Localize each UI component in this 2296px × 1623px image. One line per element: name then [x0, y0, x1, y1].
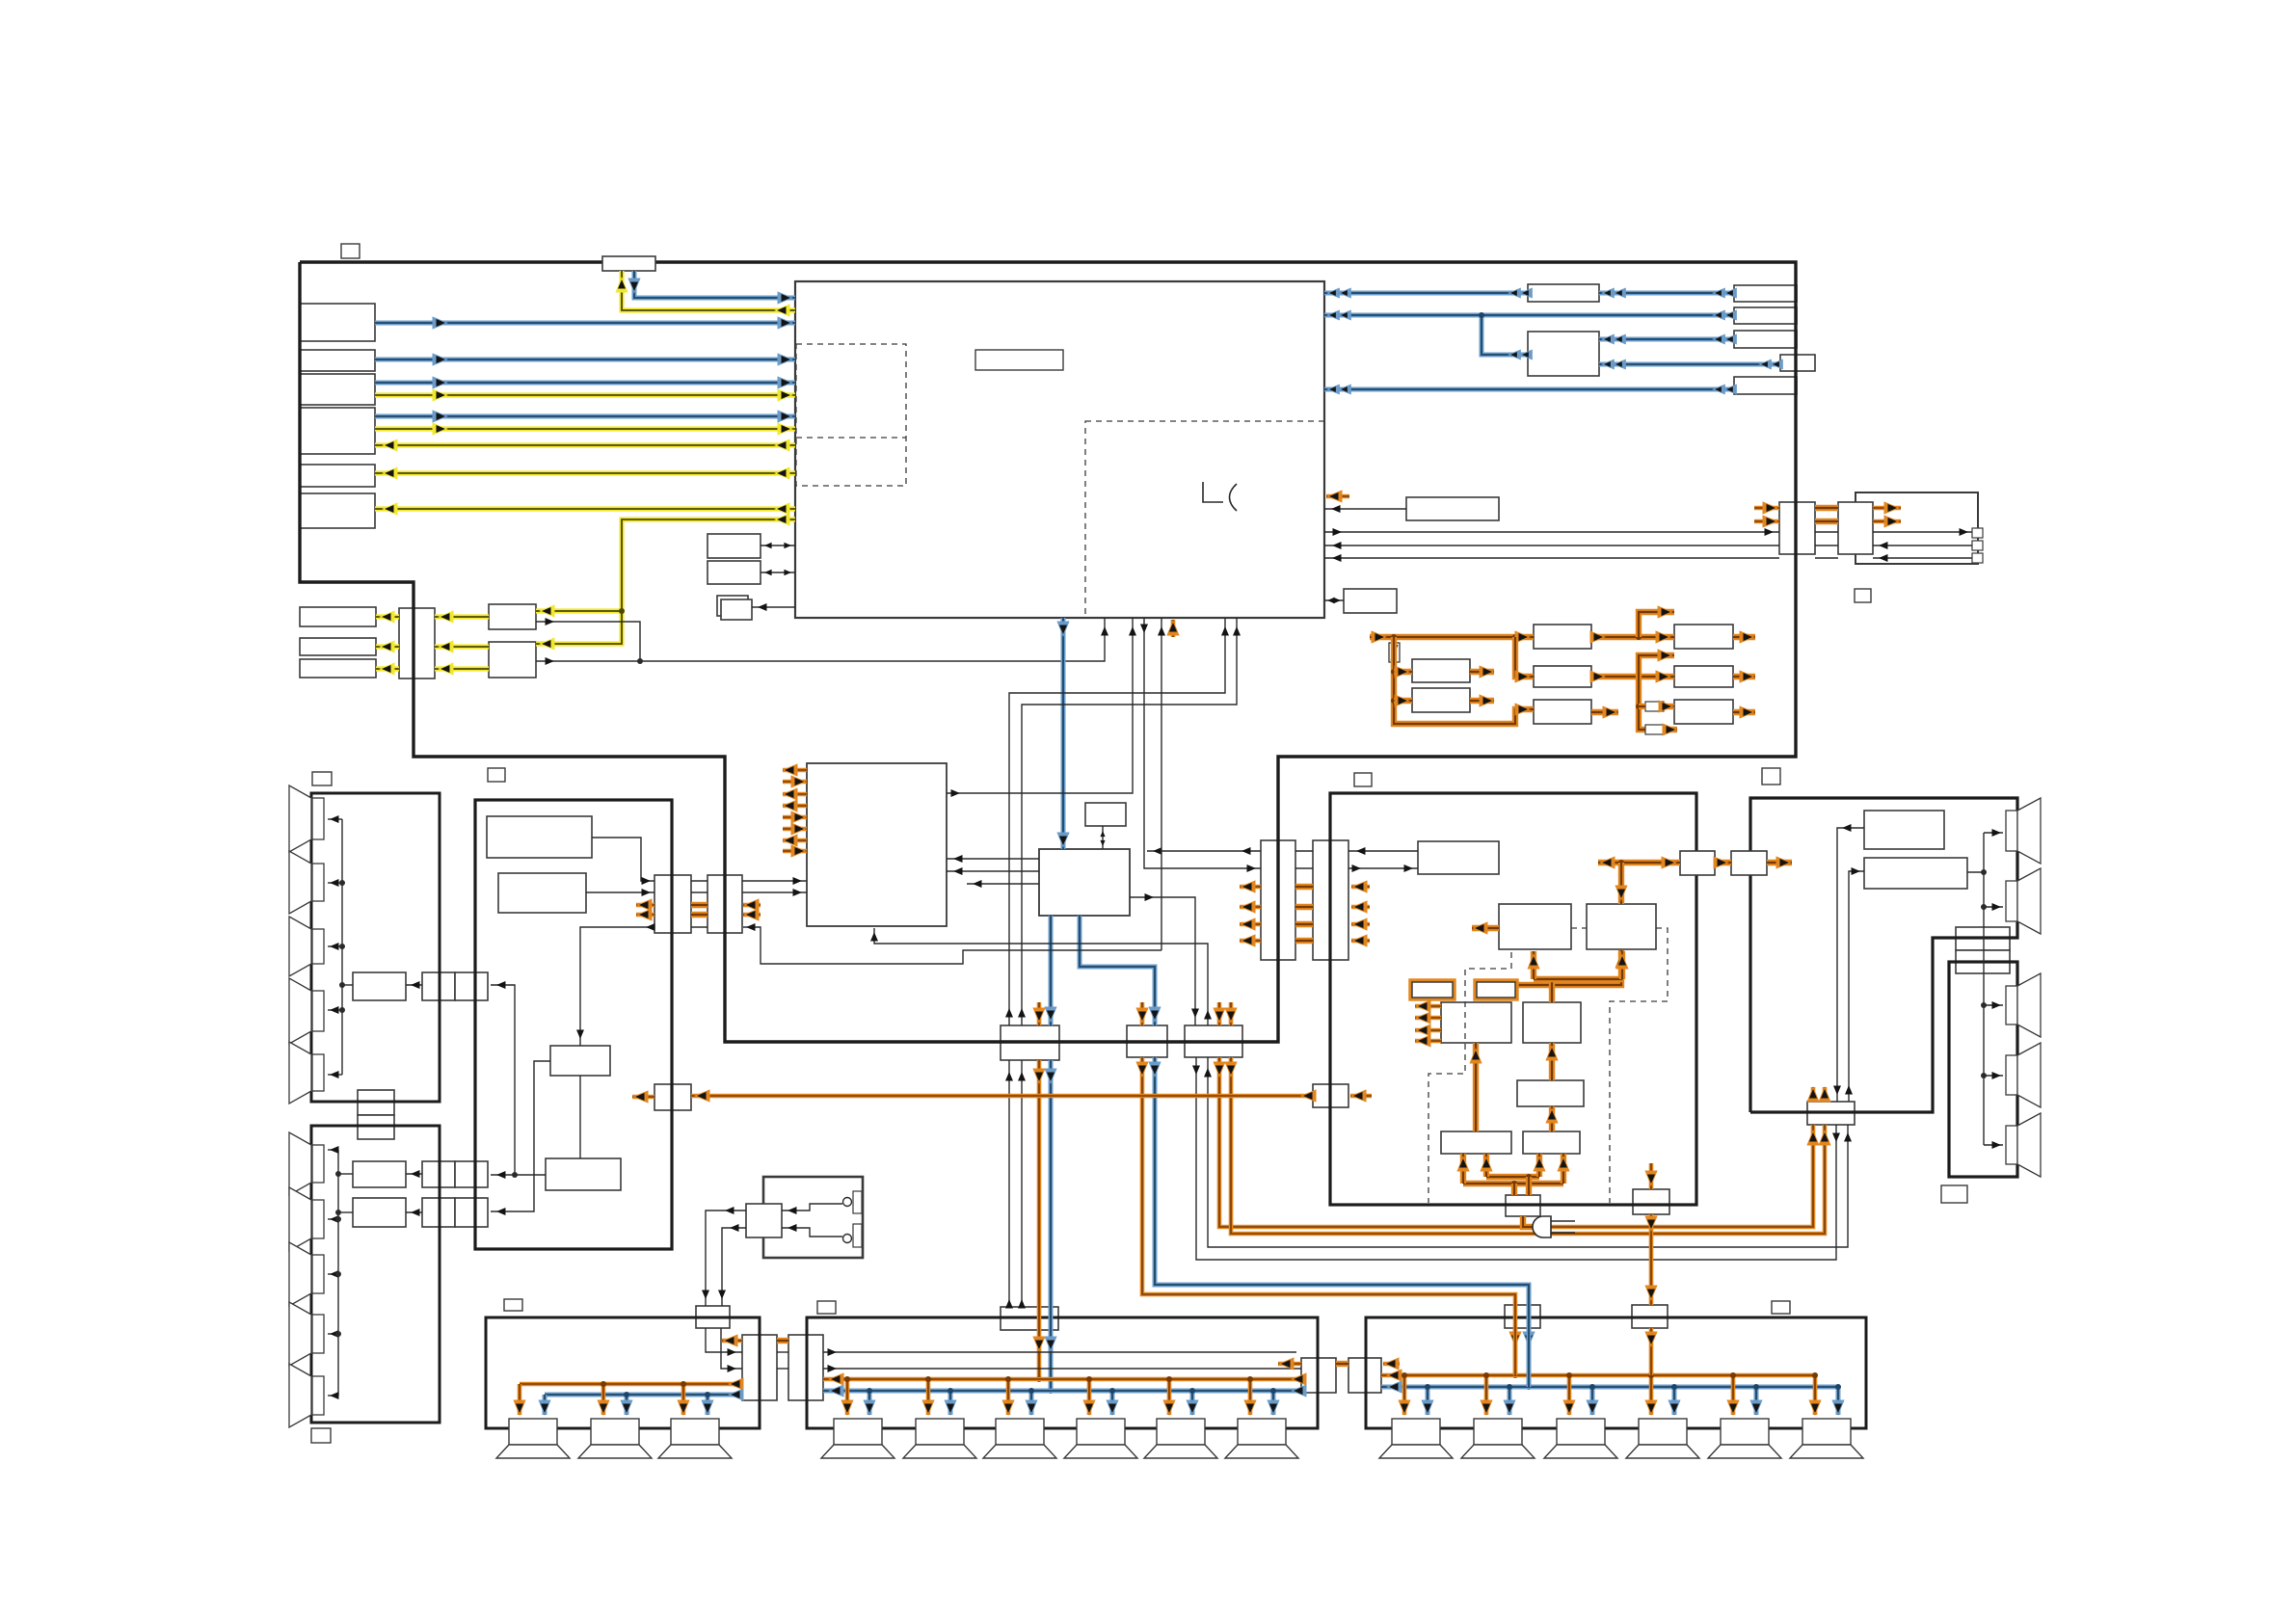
orange T2 out — [1733, 674, 1755, 679]
ac inlet outer box — [763, 1177, 863, 1258]
pair box BR — [788, 1335, 823, 1400]
orange rail 1 TA stub — [1240, 885, 1261, 890]
label square right speaker — [1941, 1185, 1967, 1203]
wire branch to RV pair — [491, 985, 515, 1175]
dsp box U200 — [1039, 849, 1130, 916]
box L1m — [1528, 284, 1599, 302]
label square center speaker — [504, 1299, 522, 1311]
wire U100 down to TA — [1144, 618, 1261, 868]
psu bottom bus outer — [1463, 1181, 1563, 1186]
orange BL BR link — [777, 1338, 788, 1344]
wire tape-in blue 335 — [375, 321, 795, 326]
orange CN1 stub b — [636, 913, 654, 918]
left lower terminal 2 — [312, 1200, 324, 1238]
wire yellow branch to D1 — [536, 608, 622, 613]
wire V2 to CN1 — [586, 891, 654, 893]
psu transformer PB — [1587, 904, 1656, 949]
psu transformer orange tee — [1598, 860, 1680, 865]
fuse lower stub — [1645, 725, 1664, 734]
orange stub rel3 b — [1229, 1002, 1234, 1025]
center blue drop x565 — [543, 1395, 547, 1415]
right terminal 3 — [2006, 986, 2017, 1024]
right horn 3 — [2017, 973, 2041, 1037]
net wire y577 — [1873, 557, 1972, 559]
wire D2 to mux a — [435, 644, 489, 649]
orange stub rel2 — [1140, 1002, 1145, 1025]
orange CN2 stub b — [743, 913, 761, 918]
codec stub 5 — [783, 815, 807, 820]
blue bus w5 y404 — [1324, 387, 1734, 392]
label square dsp section — [488, 768, 505, 782]
left lower terminal 5 — [312, 1376, 324, 1415]
surround orange drop x1883 — [1813, 1375, 1818, 1415]
orange stub into U100 y515 — [1326, 494, 1349, 499]
wire CN link 962 — [691, 926, 707, 928]
orange rail 3 link — [1295, 921, 1313, 927]
surround blue drop x1481 — [1426, 1387, 1430, 1415]
orange CN link b — [691, 912, 707, 918]
psu net mid box M1 — [1534, 625, 1591, 649]
right horn 4 — [2017, 1043, 2041, 1107]
wire U100 vert 1205 — [1161, 618, 1162, 950]
left upper terminal 3 — [312, 929, 324, 964]
ac inlet box Bac — [1506, 1195, 1540, 1216]
wire double box to U100 — [752, 606, 795, 608]
orange BL stub — [722, 1339, 742, 1344]
orange M2 to T2 — [1591, 674, 1674, 679]
buffer box D2 — [489, 642, 536, 678]
codec stub 6 — [783, 827, 807, 832]
amp box U2 — [1864, 858, 1967, 889]
wire out yellow 491 — [375, 470, 795, 475]
standby stub right — [1350, 1094, 1372, 1099]
wire CN2 out right b — [742, 891, 807, 893]
left upper horn 1 — [289, 785, 311, 852]
orange C1 C2 link b — [1815, 519, 1838, 524]
psu net mid box M3 — [1534, 700, 1591, 724]
orange CN1 stub a — [636, 903, 654, 908]
net outer terminal box — [1855, 492, 1978, 564]
front orange drop x1046 — [1006, 1379, 1011, 1415]
left lower terminal 3 — [312, 1255, 324, 1293]
wire TB TA link y883 — [1295, 850, 1313, 852]
center orange bus — [520, 1382, 742, 1387]
net wire y564 — [1873, 545, 1972, 546]
center speaker x553 — [509, 1419, 557, 1445]
front speaker x890 — [834, 1419, 882, 1445]
wire RV to feed — [342, 984, 353, 986]
wire U2 to speaker feed — [1967, 871, 1984, 873]
center blue drop x650 — [625, 1395, 629, 1415]
net connector C2 — [1838, 502, 1873, 554]
black pair to Cf a — [1008, 1060, 1010, 1307]
wire out yellow 462 — [375, 442, 795, 447]
front blue drop x1070 — [1029, 1391, 1034, 1415]
wire W2 to RS1 pair — [491, 1174, 546, 1176]
wire P0 to TB y883 — [1348, 850, 1418, 852]
right terminal 4 — [2006, 1055, 2017, 1095]
orange M1 to T1 — [1591, 634, 1674, 640]
surround blue drop x1822 — [1754, 1387, 1759, 1415]
orange rel2 staircase to Cs1 — [1142, 1057, 1515, 1375]
front blue drop x1154 — [1110, 1391, 1115, 1415]
pair box RS1b — [455, 1161, 488, 1187]
double box memory back — [717, 596, 748, 616]
standby long orange wire — [691, 1094, 1313, 1099]
psu net mid box M2 — [1534, 666, 1591, 687]
surround speaker x1469 — [1392, 1419, 1440, 1445]
blue rel2 staircase to Cs1 — [1155, 1057, 1529, 1387]
blue bus w3 y352 — [1599, 337, 1734, 342]
psu mid box Smid — [1517, 1080, 1584, 1106]
wire mux to B9 — [376, 666, 399, 671]
ac out wire 2 to Cc — [722, 1228, 746, 1306]
orange CN link a — [691, 902, 707, 908]
wire RS2 to feed — [338, 1211, 353, 1213]
input jack box J3 — [300, 374, 375, 405]
box Dm — [1344, 589, 1397, 613]
wire RS2pair to RS2 — [406, 1211, 422, 1213]
psu net out box T2 — [1674, 666, 1733, 687]
blue rel1 down to front bus — [1049, 1060, 1054, 1391]
right horn 2 — [2017, 868, 2041, 934]
orange rail 1 TB stub — [1351, 885, 1370, 890]
protector box MR — [1523, 1002, 1581, 1043]
wire W1 to W2 — [579, 1076, 581, 1158]
wire Cc to BL b — [721, 1328, 742, 1369]
surround blue drop x1566 — [1508, 1387, 1512, 1415]
left lower horn 5 — [289, 1364, 311, 1427]
right horn 5 — [2017, 1113, 2041, 1177]
codec box B_codec — [807, 763, 947, 926]
codec stub 4 — [783, 804, 807, 809]
label square front speaker — [817, 1301, 836, 1314]
left upper horn 2 — [289, 851, 311, 914]
front blue drop x902 — [868, 1391, 872, 1415]
relay box REL2 — [1127, 1025, 1167, 1057]
sb feed to terminal u1 — [1984, 832, 2003, 834]
dashed dsp sub-block in U100 — [1085, 421, 1324, 618]
pair box RS2a — [422, 1198, 455, 1227]
orange stub U100 bottom — [1171, 620, 1176, 637]
front feed box Cf — [1001, 1307, 1058, 1330]
amp box U1 — [1864, 811, 1944, 849]
blue bus w4 y378 — [1599, 362, 1780, 367]
psu tee box B — [1731, 851, 1767, 875]
output jack box B9 — [300, 659, 376, 678]
conn pair box CN2 — [707, 875, 742, 933]
main switch IC U100 — [795, 281, 1324, 618]
protector box ML — [1441, 1002, 1511, 1043]
psu Bac feeds — [1511, 1184, 1517, 1195]
pair box RS1a — [422, 1161, 455, 1187]
wire rel1 riser b — [1022, 618, 1237, 1025]
wire SB1 to U100 — [761, 545, 795, 546]
fuse symbol on feed — [1389, 643, 1400, 662]
wire Cc to BL a — [706, 1328, 742, 1352]
wire dsp to rel3 — [1130, 897, 1195, 1025]
label square psu section — [1354, 773, 1372, 786]
codec stub 7 — [783, 838, 807, 843]
double box memory front — [721, 599, 752, 620]
left upper feed line — [341, 819, 343, 1075]
orange stub rel3 a — [1217, 1002, 1222, 1025]
ac terminal t1 — [853, 1191, 862, 1213]
orange T1 out — [1733, 634, 1755, 640]
wire CN1 to W1 — [580, 927, 654, 1046]
video box V1 — [487, 816, 592, 858]
left lower horn 2 — [289, 1187, 311, 1251]
wire TA TB link y901 — [1295, 867, 1313, 869]
orange rail 1 link — [1295, 884, 1313, 890]
surround feed box Cs1 — [1505, 1305, 1540, 1328]
psu tee down — [1618, 863, 1624, 904]
surround speaker x1810 — [1721, 1419, 1769, 1445]
orange rail 2 link — [1295, 904, 1313, 910]
wire CN link 914 — [691, 880, 707, 882]
psu feed to Cs2 — [1649, 1214, 1654, 1305]
orange rail 3 TA stub — [1240, 922, 1261, 927]
ac plug symbol — [1533, 1216, 1551, 1237]
rectifier box LR — [1523, 1131, 1580, 1154]
front speaker x1142 — [1077, 1419, 1125, 1445]
net wire y552 — [1324, 531, 1779, 533]
wire in yellow 410 — [375, 392, 795, 397]
psu net source box F2 — [1412, 688, 1470, 712]
left upper speaker box border — [311, 793, 440, 1102]
standby line box RB — [1313, 1084, 1348, 1107]
wire out yellow 528 — [375, 506, 795, 511]
box H hdmi — [1406, 497, 1499, 520]
psu net out box T3 — [1674, 700, 1733, 724]
net connector C1 — [1779, 502, 1815, 554]
black rel3 bundle b — [1208, 1057, 1848, 1247]
front orange drop x879 — [845, 1379, 850, 1415]
right speaker section border — [1949, 962, 2017, 1177]
wire sb connector to U2 — [1849, 871, 1864, 1102]
psu tee out — [1767, 860, 1792, 865]
wire W1 to RS2 pair — [491, 1061, 550, 1211]
psu net out box T1 — [1674, 625, 1733, 649]
pair box BL — [742, 1335, 777, 1400]
wire rel3 to codec — [874, 928, 1208, 1025]
front orange drop x1213 — [1167, 1379, 1172, 1415]
left lower horn 3 — [289, 1242, 311, 1306]
orange F1 out — [1470, 669, 1494, 675]
orange BA BB link — [1336, 1361, 1348, 1367]
top section border — [300, 262, 1796, 1042]
orange branch to F1 — [1394, 669, 1412, 675]
surround blue drop x1907 — [1836, 1387, 1841, 1415]
blue bus w2 branch to L2m — [1482, 315, 1528, 355]
sb feed to terminal r2 — [1984, 1075, 2003, 1077]
orange LR to Smid — [1549, 1106, 1555, 1131]
wire H box to U100 — [1324, 508, 1406, 510]
psu feed into Bpsu — [1649, 1163, 1654, 1189]
dashed tuner block in U100 — [796, 344, 906, 486]
front blue drop x986 — [948, 1391, 953, 1415]
dashed divider in tuner block — [796, 437, 906, 439]
Cs2 to surround bus — [1649, 1328, 1654, 1375]
box R3 — [1734, 331, 1797, 348]
box R1 — [1734, 285, 1797, 302]
wire branch to CN2 — [743, 927, 1161, 964]
orange into C1 a — [1754, 506, 1779, 511]
wire BL BR links — [777, 1351, 788, 1353]
front speaker x1225 — [1157, 1419, 1205, 1445]
surround feed box Cs2 — [1632, 1305, 1668, 1328]
orange stub up right a — [1639, 612, 1674, 637]
front speaker x975 — [916, 1419, 964, 1445]
label square top section — [341, 244, 360, 258]
psu section border — [1330, 793, 1696, 1205]
sb feed to terminal r1 — [1984, 1004, 2003, 1006]
sb feed to terminal r3 — [1984, 1144, 2003, 1146]
left upper terminal 4 — [312, 991, 324, 1031]
surround speaker x1725 — [1639, 1419, 1687, 1445]
wire dsp stub left — [967, 883, 1039, 885]
sb speaker feed vertical — [1983, 833, 1985, 1145]
orange BB stub in — [1383, 1362, 1400, 1367]
pair box RVb — [455, 972, 488, 1000]
center speaker x638 — [591, 1419, 639, 1445]
left lower terminal 1 — [312, 1145, 324, 1183]
front orange drop x963 — [926, 1379, 931, 1415]
wire dsp to codec a — [947, 858, 1039, 860]
output jack box B7 — [300, 607, 376, 626]
net pin square p2 — [1972, 541, 1983, 550]
relay box REL3 — [1185, 1025, 1242, 1057]
box SB1 — [707, 534, 761, 558]
wire dsp clock link — [1102, 826, 1104, 849]
orange BA stub out — [1278, 1362, 1301, 1367]
wire D1 to mux — [435, 614, 489, 619]
mid stacked box MS2 — [358, 1115, 394, 1139]
front orange bus — [823, 1377, 1301, 1382]
orange rail 2 TB stub — [1351, 905, 1370, 910]
surround speaker box border — [1366, 1317, 1866, 1428]
orange T3 out — [1733, 709, 1755, 715]
pair box BA — [1301, 1358, 1336, 1393]
dsp clock box — [1085, 803, 1126, 826]
ac plug wire — [1523, 1216, 1543, 1227]
blue bus w2 y327 — [1324, 313, 1734, 318]
front orange drop x1130 — [1087, 1379, 1092, 1415]
orange branch M2 — [1515, 637, 1534, 677]
ML stub 1 — [1415, 1004, 1441, 1009]
front orange drop x1297 — [1248, 1379, 1253, 1415]
wire SB2 to U100 — [761, 572, 795, 573]
left upper horn 4 — [289, 978, 311, 1044]
orange M3 out stub — [1591, 709, 1618, 715]
black rel3 bundle a — [1196, 1057, 1836, 1260]
ML stub 3 — [1415, 1028, 1441, 1033]
video box V2 — [498, 873, 586, 913]
relay RS2 — [353, 1198, 406, 1227]
wire TB to P0 y901 — [1348, 867, 1418, 869]
psu PA stub — [1472, 925, 1499, 931]
left upper horn 5 — [289, 1042, 311, 1104]
surround orange drop x1798 — [1731, 1375, 1736, 1415]
center blue drop x734 — [706, 1395, 710, 1415]
sb feed to terminal u2 — [1984, 906, 2003, 908]
buffer box D1 — [489, 604, 536, 629]
wire in yellow 445 — [375, 426, 795, 431]
wire in blue 397 — [375, 381, 795, 386]
right terminal 5 — [2006, 1126, 2017, 1164]
orange rel3 bundle b — [1231, 1057, 1825, 1234]
orange branch to F2 — [1394, 698, 1412, 704]
codec stub 3 — [783, 792, 807, 797]
net pin square p1 — [1972, 528, 1983, 538]
box SB2 — [707, 561, 761, 584]
surround orange drop x1713 — [1649, 1375, 1654, 1415]
ML stub 4 — [1415, 1039, 1441, 1044]
front blue drop x1321 — [1271, 1391, 1276, 1415]
mid stacked box MS1 — [358, 1090, 394, 1115]
left upper terminal 2 — [312, 864, 324, 901]
rec selector mux — [399, 608, 435, 678]
conn pair box CN1 — [654, 875, 691, 933]
left upper terminal 5 — [312, 1054, 324, 1091]
orange rail 3 TB stub — [1351, 922, 1370, 927]
orange C2 out a — [1873, 506, 1901, 511]
input jack box J2 — [300, 350, 375, 371]
wire rel1 riser a — [1009, 618, 1225, 1025]
center feed box Cc — [696, 1306, 730, 1328]
left lower terminal 4 — [312, 1315, 324, 1353]
psu orange L to PB — [1517, 950, 1621, 985]
ac switch box — [746, 1204, 782, 1237]
wire dsp to codec b — [947, 870, 1039, 872]
orange highlight box O2 — [1475, 980, 1517, 999]
surround orange drop x1457 — [1402, 1375, 1407, 1415]
front speaker box border — [807, 1317, 1318, 1428]
input jack box J1 — [300, 304, 375, 341]
wire TA out left y883 — [1147, 850, 1261, 852]
orange C1 C2 link a — [1815, 505, 1838, 511]
box R2 — [1734, 307, 1797, 324]
wire U1 to sb connector — [1837, 828, 1864, 1102]
wire V1 to CN1 — [592, 838, 654, 881]
blue wire U100 to DSP — [1061, 618, 1066, 849]
right horn 1 — [2017, 798, 2041, 864]
wire out yellow 539 to rec mux — [536, 519, 795, 644]
left lower horn 4 — [289, 1302, 311, 1366]
wire Dm to U100 double arrow — [1324, 599, 1344, 601]
input jack box J5 — [300, 465, 375, 487]
orange rail 4 link — [1295, 938, 1313, 944]
wire RS1pair to RS1 — [406, 1173, 422, 1175]
surround back section border — [1750, 798, 2017, 1112]
surround orange drop x1542 — [1484, 1375, 1489, 1415]
standby line box OB — [654, 1084, 691, 1110]
orange MR up to PA PB — [1549, 979, 1555, 1002]
label square surround back — [1762, 768, 1780, 785]
wire mux to B7 — [376, 614, 399, 619]
ac switch contact path1 — [782, 1204, 842, 1211]
input jack box J6 — [300, 493, 375, 528]
box P0 — [1418, 841, 1499, 874]
tall connector TA — [1261, 840, 1295, 960]
surround orange bus — [1381, 1373, 1815, 1378]
box W2 — [546, 1158, 621, 1190]
dsp section border — [475, 800, 672, 1249]
input jack box J4 — [300, 408, 375, 454]
front speaker x1058 — [996, 1419, 1044, 1445]
orange rail 2 TA stub — [1240, 905, 1261, 910]
front speaker x1309 — [1238, 1419, 1286, 1445]
